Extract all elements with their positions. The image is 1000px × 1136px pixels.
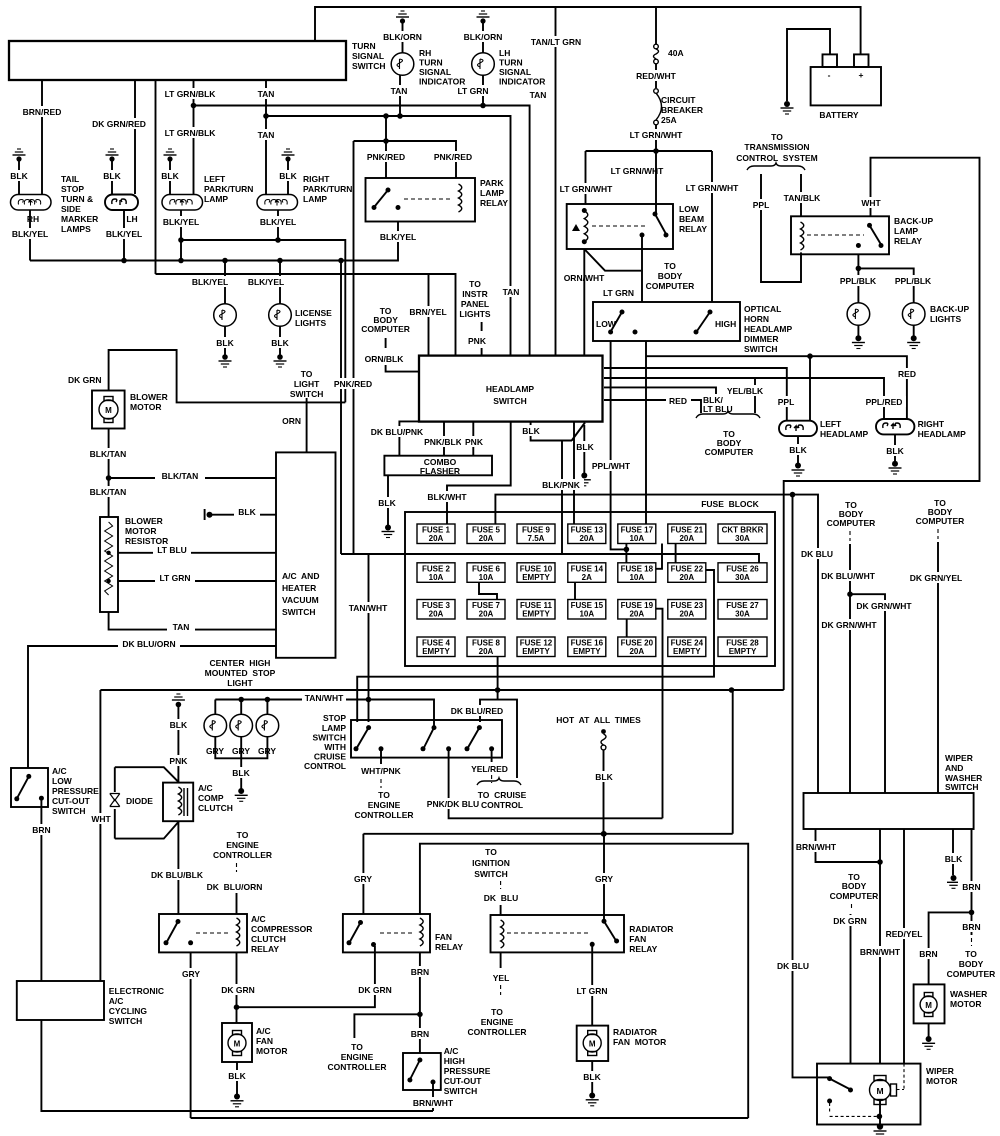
wire RED drop to body computer	[604, 395, 701, 413]
ground left park lamp	[159, 149, 181, 194]
label GRY chmsl	[206, 746, 276, 756]
svg-text:PPL/RED: PPL/RED	[866, 397, 903, 407]
fuse FUSE26 30A	[718, 563, 767, 583]
wire DK GRN/WHT branch	[850, 594, 914, 793]
svg-text:LT GRN: LT GRN	[457, 86, 488, 96]
svg-text:BLK/YEL: BLK/YEL	[12, 229, 48, 239]
svg-text:CLUTCH: CLUTCH	[251, 934, 286, 944]
svg-text:BLK: BLK	[583, 1072, 601, 1082]
svg-text:IGNITION: IGNITION	[472, 858, 510, 868]
label A/C compressor clutch relay	[251, 914, 312, 954]
wire fuse17 to fuse18	[625, 543, 627, 549]
svg-text:MOTOR: MOTOR	[950, 999, 981, 1009]
wire LT GRN/BLK bus to headlamp switch	[194, 106, 530, 356]
park lamp relay	[366, 178, 476, 222]
ground LH indicator	[459, 11, 508, 53]
svg-text:BLK/YEL: BLK/YEL	[192, 277, 228, 287]
label LH turn signal indicator	[499, 48, 545, 87]
wiper motor box	[817, 1064, 921, 1125]
svg-text:BLK: BLK	[522, 426, 540, 436]
ground RH indicator	[378, 11, 427, 53]
ground chmsl	[215, 737, 267, 802]
fuse FUSE9 7.5A	[517, 524, 555, 544]
svg-text:40A: 40A	[668, 48, 684, 58]
wire park lamp relay feed line	[354, 113, 457, 178]
lamp RH tail/stop	[11, 195, 52, 225]
svg-text:ENGINE: ENGINE	[226, 840, 259, 850]
svg-text:BLK: BLK	[10, 171, 28, 181]
wire DK GRN/RED to LH lamp	[92, 80, 147, 194]
fuse FUSE10 EMPTY	[517, 563, 555, 583]
svg-text:CUT-OUT: CUT-OUT	[52, 796, 91, 806]
svg-text:TAN: TAN	[258, 89, 275, 99]
svg-text:RED: RED	[898, 369, 916, 379]
svg-text:CONTROL: CONTROL	[304, 761, 346, 771]
svg-text:FAN MOTOR: FAN MOTOR	[613, 1037, 666, 1047]
svg-text:HEADLAMP: HEADLAMP	[918, 429, 966, 439]
fuse FUSE16 EMPTY	[568, 637, 606, 657]
wire DK BLU/BLK clutch to relay	[148, 821, 207, 914]
svg-text:TAN/WHT: TAN/WHT	[305, 693, 344, 703]
radiator fan relay	[491, 915, 625, 952]
label to body computer bracket (headlamp)	[696, 411, 760, 457]
svg-text:CIRCUIT: CIRCUIT	[661, 95, 696, 105]
svg-text:ENGINE: ENGINE	[368, 800, 401, 810]
svg-text:DK BLU/BLK: DK BLU/BLK	[151, 870, 204, 880]
wire BLK/TAN to A/C switch	[109, 470, 276, 481]
svg-text:BLK: BLK	[103, 171, 121, 181]
svg-text:SWITCH: SWITCH	[352, 61, 386, 71]
svg-text:DK BLU: DK BLU	[484, 893, 518, 903]
svg-text:10A: 10A	[579, 610, 594, 619]
label radiator fan relay	[629, 924, 673, 954]
wire ORN/BLK to headlamp switch	[365, 354, 419, 372]
svg-text:RED: RED	[669, 396, 687, 406]
wire PNK to combo flasher	[461, 422, 487, 456]
A/C fan motor	[222, 1023, 252, 1062]
svg-text:PARK/TURN: PARK/TURN	[204, 184, 253, 194]
back-up lamp relay	[791, 216, 889, 254]
svg-text:20A: 20A	[679, 534, 694, 543]
fuse block outline	[405, 499, 775, 666]
wire TAN/WHT chmsl line	[215, 692, 434, 728]
wire BLK/YEL LH lamp down	[102, 210, 146, 263]
svg-text:MOTOR: MOTOR	[926, 1076, 957, 1086]
svg-text:BLK: BLK	[216, 338, 234, 348]
svg-text:YEL: YEL	[493, 973, 510, 983]
svg-text:BLK/PNK: BLK/PNK	[542, 480, 581, 490]
svg-text:OPTICAL: OPTICAL	[744, 304, 781, 314]
svg-text:CONTROLLER: CONTROLLER	[354, 810, 413, 820]
lamp chmsl bulbs	[204, 714, 279, 737]
label to body computer (low beam)	[646, 261, 695, 291]
fuse FUSE27 30A	[718, 600, 767, 620]
ground left headlamp	[787, 436, 809, 476]
svg-text:ENGINE: ENGINE	[341, 1052, 374, 1062]
svg-text:SWITCH: SWITCH	[945, 782, 979, 792]
svg-text:RADIATOR: RADIATOR	[629, 924, 673, 934]
svg-text:SIGNAL: SIGNAL	[499, 67, 531, 77]
svg-text:20A: 20A	[479, 610, 494, 619]
ground license left	[214, 327, 236, 368]
ground license right	[269, 327, 291, 368]
svg-text:CYCLING: CYCLING	[109, 1006, 148, 1016]
svg-text:PNK: PNK	[465, 437, 484, 447]
wire fuse feed rail y554	[341, 554, 759, 563]
fuse FUSE11 EMPTY	[517, 600, 555, 620]
wire left headlamp high feed	[809, 356, 811, 421]
svg-text:BLOWER: BLOWER	[130, 392, 168, 402]
label to engine controller (clutch)	[213, 830, 272, 872]
svg-text:LT GRN/BLK: LT GRN/BLK	[165, 89, 217, 99]
svg-text:HOT AT ALL TIMES: HOT AT ALL TIMES	[556, 715, 641, 725]
svg-text:LAMP: LAMP	[894, 226, 918, 236]
svg-text:SWITCH: SWITCH	[52, 806, 86, 816]
svg-text:DK BLU/PNK: DK BLU/PNK	[371, 427, 424, 437]
label radiator fan motor	[613, 1027, 666, 1047]
svg-text:PPL/WHT: PPL/WHT	[592, 461, 631, 471]
wire BLK/YEL from park lamp relay	[376, 231, 420, 242]
svg-text:STOP: STOP	[323, 713, 346, 723]
svg-text:CLUTCH: CLUTCH	[198, 803, 233, 813]
svg-text:GRY: GRY	[354, 874, 372, 884]
ground BLK wiper switch	[941, 829, 966, 888]
svg-text:DK GRN/RED: DK GRN/RED	[92, 119, 146, 129]
svg-text:BRN/YEL: BRN/YEL	[409, 307, 446, 317]
wire DK BLU/ORN to relay coil	[207, 882, 263, 914]
wire LT GRN resistor tap	[118, 572, 276, 583]
svg-text:BRN: BRN	[919, 949, 937, 959]
wire YEL/BLK drop	[724, 378, 766, 413]
svg-text:HEATER: HEATER	[282, 583, 316, 593]
low beam relay	[567, 204, 673, 249]
svg-text:A/C: A/C	[109, 996, 124, 1006]
wire rail y690	[100, 687, 783, 693]
label to transmission control system	[736, 132, 818, 170]
svg-text:DK BLU: DK BLU	[777, 961, 809, 971]
svg-text:PNK: PNK	[169, 756, 188, 766]
ground back-up left	[852, 325, 865, 348]
wire BLK/WHT headlamp switch to fuse 1	[424, 422, 511, 524]
wire BRN chain wiper switch	[958, 829, 985, 946]
A/C and heater vacuum switch	[276, 452, 336, 657]
wire PPL low beam rail	[604, 368, 799, 421]
label to light switch / wire ORN	[282, 369, 323, 452]
svg-text:LOW: LOW	[52, 776, 73, 786]
svg-text:WHT: WHT	[91, 814, 111, 824]
svg-text:CONTROLLER: CONTROLLER	[327, 1062, 386, 1072]
diode	[108, 767, 153, 838]
ground above A/C comp clutch	[166, 694, 191, 783]
svg-text:SWITCH: SWITCH	[312, 733, 346, 743]
svg-text:PPL: PPL	[753, 200, 770, 210]
wire BRN branch to engine controller	[327, 1014, 419, 1072]
svg-text:VACUUM: VACUUM	[282, 595, 319, 605]
svg-text:COMP: COMP	[198, 793, 224, 803]
fuse FUSE13 20A	[568, 524, 606, 544]
wire BLK/YEL RH lamp down	[8, 210, 52, 261]
svg-text:GRY: GRY	[595, 874, 613, 884]
wire BRN fan relay coil down	[408, 952, 433, 1053]
wire PNK/DK BLU to fuse19 feed	[426, 749, 663, 819]
svg-text:EMPTY: EMPTY	[422, 647, 450, 656]
svg-text:PPL/BLK: PPL/BLK	[895, 276, 932, 286]
svg-text:LIGHT: LIGHT	[227, 678, 253, 688]
svg-text:LH: LH	[499, 48, 510, 58]
ground right park lamp	[277, 149, 299, 194]
wire fuse19 to fuse20	[626, 619, 628, 637]
svg-text:CRUISE: CRUISE	[314, 752, 346, 762]
A/C low pressure cut-out switch	[11, 768, 48, 807]
wire TAN/WHT drop	[346, 554, 391, 700]
svg-text:SWITCH: SWITCH	[474, 869, 508, 879]
svg-text:WITH: WITH	[324, 742, 346, 752]
wire BLK/LT BLU drop	[604, 387, 733, 414]
wire rail to PPL/RED	[604, 378, 906, 419]
svg-text:BODY: BODY	[959, 959, 984, 969]
motor wiper	[870, 1076, 897, 1105]
svg-text:TAN/BLK: TAN/BLK	[784, 193, 822, 203]
svg-text:TURN: TURN	[352, 41, 376, 51]
wire TAN from switch	[252, 80, 280, 194]
svg-text:TO: TO	[301, 369, 313, 379]
svg-text:MARKER: MARKER	[61, 214, 98, 224]
svg-text:COMPUTER: COMPUTER	[830, 891, 879, 901]
wiper motor internals	[827, 1076, 882, 1119]
svg-text:LT GRN/WHT: LT GRN/WHT	[686, 183, 740, 193]
ground right headlamp	[884, 434, 906, 474]
label right headlamp	[918, 419, 966, 439]
label A/C fan motor	[256, 1026, 287, 1056]
svg-text:LAMP: LAMP	[303, 194, 327, 204]
wire LT GRN relay to dimmer	[603, 235, 642, 302]
wire big loop to fan relay coil	[420, 844, 748, 1118]
wire PNK/RED long vertical	[334, 141, 374, 554]
svg-text:30A: 30A	[735, 534, 750, 543]
svg-text:FAN: FAN	[256, 1036, 273, 1046]
svg-text:HEADLAMP: HEADLAMP	[486, 384, 534, 394]
svg-text:DIMMER: DIMMER	[744, 334, 778, 344]
svg-text:BLK/TAN: BLK/TAN	[90, 449, 127, 459]
wire PPL transmission	[749, 174, 801, 282]
svg-text:A/C AND: A/C AND	[282, 571, 319, 581]
wire BLK stub U under headlamp switch	[519, 422, 585, 441]
wire license light right drop	[244, 261, 288, 304]
svg-text:PARK: PARK	[480, 178, 504, 188]
svg-text:M: M	[234, 1040, 241, 1049]
wire TAN/BLK transmission	[781, 174, 823, 217]
wire top feed line to battery	[315, 7, 861, 54]
svg-text:SWITCH: SWITCH	[744, 344, 778, 354]
lamp license light left	[214, 304, 237, 327]
wire fuse22 right to stop lamp switch	[357, 570, 714, 722]
wire DK BLU to wiper motor	[776, 495, 830, 1078]
wire fuse19 right to stop lamp feed	[656, 609, 663, 819]
label left headlamp	[820, 419, 868, 439]
svg-text:WHT/PNK: WHT/PNK	[361, 766, 402, 776]
svg-text:EMPTY: EMPTY	[729, 647, 757, 656]
svg-text:-: -	[828, 70, 831, 80]
svg-text:10A: 10A	[429, 573, 444, 582]
ground A/C fan motor	[224, 1062, 250, 1107]
wire chmsl bulb drops	[215, 700, 267, 714]
svg-text:DK GRN/WHT: DK GRN/WHT	[856, 601, 912, 611]
wire GRY stop lamp to fan relay	[351, 834, 376, 914]
svg-text:LAMP: LAMP	[204, 194, 228, 204]
svg-text:FAN: FAN	[629, 934, 646, 944]
svg-text:WIPER: WIPER	[945, 753, 973, 763]
ground BLK headlamp switch	[572, 425, 597, 486]
svg-text:EMPTY: EMPTY	[673, 647, 701, 656]
fuse FUSE12 EMPTY	[517, 637, 555, 657]
ground wiper motor	[874, 1101, 887, 1136]
svg-text:PPL/BLK: PPL/BLK	[840, 276, 877, 286]
wire DK GRN blower feed	[68, 350, 345, 402]
svg-text:RED/YEL: RED/YEL	[886, 929, 923, 939]
wire license light left drop	[188, 261, 232, 304]
wire RED/WHT	[630, 64, 682, 88]
svg-text:LIGHT: LIGHT	[294, 379, 320, 389]
svg-text:BLK/WHT: BLK/WHT	[427, 492, 467, 502]
svg-text:SIGNAL: SIGNAL	[352, 51, 384, 61]
svg-text:A/C: A/C	[251, 914, 266, 924]
svg-text:SWITCH: SWITCH	[282, 607, 316, 617]
fuse CKTBRKR 30A	[718, 524, 767, 544]
svg-text:DK BLU/ORN: DK BLU/ORN	[207, 882, 263, 892]
svg-text:SWITCH: SWITCH	[290, 389, 324, 399]
washer motor	[914, 984, 945, 1023]
svg-text:BLK/ORN: BLK/ORN	[383, 32, 422, 42]
wire DK GRN relay coil to fan motor	[220, 952, 256, 1023]
wire LT GRN/WHT breaker to rail	[627, 125, 685, 154]
node TAN junction	[263, 113, 269, 119]
svg-text:CONTROL: CONTROL	[481, 800, 523, 810]
svg-text:BATTERY: BATTERY	[819, 110, 859, 120]
wire TAN/LT GRN to headlamp switch	[526, 7, 586, 356]
svg-text:DK BLU: DK BLU	[801, 549, 833, 559]
svg-text:TURN: TURN	[499, 58, 523, 68]
label washer motor	[950, 989, 987, 1009]
fuse FUSE19 20A	[618, 600, 656, 620]
svg-text:RH: RH	[419, 48, 431, 58]
svg-text:LT GRN: LT GRN	[576, 986, 607, 996]
svg-text:CONTROL SYSTEM: CONTROL SYSTEM	[736, 153, 818, 163]
svg-text:PNK/BLK: PNK/BLK	[424, 437, 463, 447]
wire rail y833.8	[363, 690, 732, 837]
svg-text:20A: 20A	[429, 534, 444, 543]
svg-text:MOTOR: MOTOR	[256, 1046, 287, 1056]
optical horn headlamp dimmer switch	[593, 302, 740, 341]
svg-text:TAIL: TAIL	[61, 174, 79, 184]
wire low beam relay switch feed	[655, 151, 657, 214]
svg-text:DK GRN/YEL: DK GRN/YEL	[910, 573, 962, 583]
wire light bus y274 to headlamp switch	[156, 274, 456, 356]
label optical horn headlamp dimmer switch	[744, 304, 792, 354]
wire LT GRN LH indicator	[455, 75, 493, 108]
label park lamp relay	[480, 178, 508, 208]
svg-text:20A: 20A	[679, 610, 694, 619]
svg-text:BLK: BLK	[271, 338, 289, 348]
svg-text:LH: LH	[126, 214, 137, 224]
svg-text:BLK: BLK	[789, 445, 807, 455]
svg-text:BACK-UP: BACK-UP	[894, 216, 934, 226]
svg-text:LT BLU: LT BLU	[157, 545, 187, 555]
svg-text:LIGHTS: LIGHTS	[459, 309, 490, 319]
wire DK BLU/WHT to wiper switch	[820, 544, 879, 793]
svg-text:DK GRN: DK GRN	[68, 375, 102, 385]
wire wiper motor dashed RED/YEL link	[897, 1064, 905, 1090]
svg-text:DK GRN: DK GRN	[833, 916, 867, 926]
svg-text:MOTOR: MOTOR	[125, 526, 156, 536]
svg-text:ENGINE: ENGINE	[481, 1017, 514, 1027]
svg-text:GRY: GRY	[182, 969, 200, 979]
turn signal switch box	[9, 41, 346, 80]
svg-text:BEAM: BEAM	[679, 214, 704, 224]
lamp license light right	[269, 304, 292, 327]
svg-text:20A: 20A	[479, 534, 494, 543]
fan relay	[343, 914, 430, 952]
label blower motor	[130, 392, 168, 412]
svg-text:FAN: FAN	[435, 932, 452, 942]
svg-text:SIDE: SIDE	[61, 204, 81, 214]
wire TAN/WHT drop into box	[368, 700, 370, 723]
wire BLK/YEL ground bus y260	[30, 222, 398, 264]
wire DK BLU/RED hook	[450, 690, 517, 778]
svg-text:BLK: BLK	[238, 507, 256, 517]
lamp right park/turn	[257, 195, 298, 211]
wire fuse6 to fuse7	[479, 582, 497, 599]
svg-text:LEFT: LEFT	[820, 419, 842, 429]
svg-text:COMPUTER: COMPUTER	[361, 324, 410, 334]
svg-text:STOP: STOP	[61, 184, 84, 194]
svg-text:LIGHTS: LIGHTS	[930, 314, 961, 324]
svg-text:CUT-OUT: CUT-OUT	[444, 1076, 483, 1086]
label tail stop turn side marker lamps	[61, 174, 98, 234]
wire BLK/YEL left park lamp down	[159, 210, 203, 263]
fuse FUSE4 EMPTY	[417, 637, 455, 657]
wire BRN/RED to RH lamp	[23, 80, 62, 194]
svg-text:SWITCH: SWITCH	[444, 1086, 478, 1096]
svg-text:TO: TO	[664, 261, 676, 271]
label blower motor resistor	[125, 516, 168, 546]
svg-text:MOTOR: MOTOR	[130, 402, 161, 412]
wire YEL/RED to cruise	[471, 749, 508, 783]
wire PNK/BLK to combo flasher	[422, 422, 466, 456]
label to body computer (brn)	[947, 949, 996, 979]
fuse FUSE3 20A	[417, 600, 455, 620]
svg-text:BLK: BLK	[279, 171, 297, 181]
label RH turn signal indicator	[419, 48, 465, 87]
wire BLK/YEL right park lamp down	[256, 210, 300, 243]
label center high mounted stop light	[205, 658, 276, 688]
svg-text:TAN: TAN	[258, 130, 275, 140]
svg-text:PANEL: PANEL	[461, 299, 489, 309]
svg-text:BRN/WHT: BRN/WHT	[796, 842, 837, 852]
svg-text:TURN: TURN	[419, 58, 443, 68]
svg-text:TAN: TAN	[173, 622, 190, 632]
svg-text:HIGH: HIGH	[444, 1056, 465, 1066]
svg-text:BLOWER: BLOWER	[125, 516, 163, 526]
svg-text:BLK/YEL: BLK/YEL	[163, 217, 199, 227]
wire GRY to radiator fan relay	[592, 834, 617, 921]
svg-text:PNK/RED: PNK/RED	[434, 152, 472, 162]
svg-text:RELAY: RELAY	[251, 944, 279, 954]
svg-text:7.5A: 7.5A	[528, 534, 545, 543]
circuit breaker 25A	[654, 89, 703, 125]
svg-text:M: M	[589, 1040, 596, 1049]
wire LT GRN/WHT rail	[586, 151, 713, 176]
label stop lamp switch with cruise control	[304, 713, 346, 771]
